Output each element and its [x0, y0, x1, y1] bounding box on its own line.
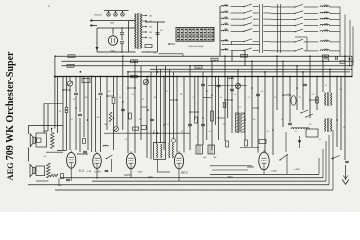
- socket: [108, 11, 110, 13]
- resistor zigzag: [109, 112, 112, 122]
- capacitor: [78, 113, 82, 115]
- electrolytic capacitor: [121, 27, 123, 29]
- ground arrow symbol: [345, 165, 347, 180]
- right small box: [340, 61, 345, 63]
- electrolytic block: [208, 145, 215, 154]
- capacitor: [74, 92, 78, 94]
- transformer core: [137, 13, 139, 49]
- tube EFM11: [259, 152, 269, 170]
- transformer primary winding: [135, 14, 137, 49]
- bus line 5: [128, 71, 350, 73]
- capacitor: [201, 123, 205, 125]
- capacitor: [201, 83, 205, 85]
- capacitor right low: [345, 160, 349, 162]
- wire bottom: [97, 51, 136, 53]
- switch row coil 306: [221, 40, 228, 41]
- socket: [122, 11, 124, 13]
- junction dots mid: [62, 89, 64, 91]
- wire jogs: [63, 89, 70, 91]
- trimmer capacitor mid: [236, 84, 241, 89]
- capacitor: [121, 108, 125, 110]
- IF transformer 2 windings: [169, 143, 170, 158]
- resistor box: [259, 140, 266, 144]
- fuse Si: [145, 45, 152, 48]
- resistor: [245, 140, 248, 146]
- wire: [28, 126, 30, 135]
- capacitor: [217, 84, 221, 86]
- resistor box 2: [141, 126, 146, 130]
- wire: [51, 129, 53, 133]
- wire mains line 1: [90, 20, 136, 22]
- switch row: [271, 41, 284, 43]
- wire: [285, 132, 287, 152]
- bottom wire 3: [92, 180, 326, 182]
- wire: [210, 165, 252, 167]
- resistor: [226, 141, 229, 147]
- capacitor: [150, 118, 154, 120]
- resistor: [61, 174, 64, 179]
- component cluster: [211, 58, 218, 61]
- wire: [157, 22, 159, 52]
- coil: [103, 145, 108, 146]
- socket: [115, 11, 117, 13]
- wire segment: [208, 85, 247, 87]
- wire: [112, 28, 114, 33]
- wire drop: [219, 52, 221, 56]
- IF trimmer: [143, 79, 148, 84]
- speaker 2: [33, 168, 35, 174]
- electrolytic capacitor: [156, 32, 160, 34]
- switch contact: [279, 159, 280, 160]
- rectifier tube EZ12: [108, 36, 117, 45]
- switch contact right: [331, 158, 332, 159]
- trimmer: [114, 127, 119, 132]
- arrow to table: [168, 43, 175, 45]
- resistor 20k: [67, 64, 74, 67]
- Netz arrow: [349, 58, 351, 67]
- wire from IF transformer: [156, 159, 158, 172]
- switch row: [271, 6, 284, 8]
- switch row: [271, 25, 284, 27]
- switch row: [271, 31, 284, 33]
- wire with 22 resistor: [159, 53, 184, 55]
- wire: [142, 51, 158, 53]
- main HT bus: [54, 76, 353, 78]
- right cluster resistor: [322, 59, 329, 62]
- IF transformer 4: [325, 119, 326, 132]
- switch row: [271, 19, 284, 21]
- resistor small: [223, 103, 226, 108]
- bottom wire 1: [210, 173, 319, 175]
- bus line 2: [61, 60, 352, 62]
- resistor bottom left: [50, 174, 58, 177]
- bottom wire 5: [55, 189, 333, 191]
- field coil 2: [47, 163, 51, 178]
- tube ECH11 second: [126, 153, 135, 169]
- trimmer: [172, 139, 176, 143]
- wire: [96, 28, 98, 52]
- wire riser: [286, 155, 288, 174]
- bus line 1: [55, 55, 352, 57]
- wire jog: [203, 97, 212, 99]
- resistor on HT bus: [131, 75, 138, 78]
- AVC wire: [104, 132, 190, 134]
- capacitor: [188, 123, 192, 125]
- ground arrow: [96, 47, 99, 51]
- wire: [212, 169, 248, 171]
- tube ECH11: [93, 154, 102, 169]
- resistor small: [65, 107, 68, 113]
- bus line 4: [150, 68, 352, 70]
- wire mains line 2: [90, 25, 97, 27]
- resistor: [112, 98, 115, 104]
- bottom wire 4: [28, 184, 329, 186]
- registration mark: [48, 5, 50, 7]
- wire: [28, 148, 30, 162]
- wire speaker top: [29, 125, 64, 127]
- coil detector: [291, 128, 309, 129]
- IF transformer 3: [325, 93, 326, 106]
- wire: [77, 153, 88, 155]
- capacitor: [230, 88, 234, 90]
- switch row coil 303: [221, 18, 228, 19]
- wire: [36, 180, 48, 182]
- coil small: [228, 78, 234, 79]
- wire: [46, 151, 63, 153]
- resistor: [195, 117, 198, 123]
- wire drop: [244, 51, 246, 66]
- switch row: [271, 50, 284, 52]
- tube bottom leads: [70, 168, 72, 181]
- wire: [44, 103, 63, 105]
- resistor 0.1M: [195, 66, 202, 69]
- IF transformer 1: [154, 142, 166, 159]
- capacitor: [66, 178, 70, 180]
- wire HT line: [97, 27, 136, 29]
- capacitor right: [335, 56, 337, 60]
- resistor tall: [211, 111, 214, 121]
- resistor: [316, 97, 319, 103]
- switch row: [271, 12, 284, 14]
- diode: [298, 140, 301, 143]
- field coil 1: [51, 133, 55, 149]
- potentiometer contact: [300, 112, 301, 113]
- wave switch bank left rail: [219, 6, 221, 52]
- capacitor: [303, 83, 307, 85]
- output transformer 1: [36, 133, 47, 147]
- mains terminal: [91, 25, 93, 27]
- resistor 50k: [131, 60, 138, 63]
- right rails: [339, 7, 341, 57]
- trimmer capacitor: [67, 81, 72, 86]
- resistor: [129, 113, 132, 119]
- wire socket top bus: [104, 10, 129, 12]
- wire: [44, 130, 48, 132]
- resistor box: [133, 127, 139, 130]
- wave switch bank right rail: [277, 4, 279, 53]
- capacitor: [288, 122, 292, 124]
- vertical wires: [43, 104, 45, 134]
- wire drop: [231, 51, 233, 62]
- mains terminal: [91, 20, 93, 22]
- switch shaft: [259, 4, 261, 53]
- capacitor: [83, 150, 87, 152]
- switch row coil 301: [221, 5, 228, 6]
- wire: [57, 150, 67, 152]
- resistor: [83, 138, 86, 144]
- electrolytic capacitor: [120, 41, 124, 43]
- wire: [145, 21, 165, 23]
- capacitor: [99, 92, 103, 94]
- electrolytic block: [196, 145, 203, 154]
- junction dots: [55, 55, 57, 57]
- bottom wire 2: [60, 177, 323, 179]
- resistor 1M: [68, 55, 75, 58]
- band filter box: [82, 79, 90, 83]
- capacitor: [105, 169, 109, 171]
- wire: [58, 178, 60, 186]
- switch row coil 305: [221, 30, 228, 31]
- switch row coil 304: [221, 24, 228, 25]
- bus line 3: [61, 65, 352, 67]
- capacitor: [256, 93, 260, 95]
- resistor network hatched: [235, 113, 239, 132]
- output transformer 2: [36, 166, 45, 176]
- tube EBF11: [174, 153, 183, 169]
- resistor 100: [241, 55, 248, 58]
- wire: [110, 159, 112, 172]
- tube socket table: [176, 28, 214, 42]
- switch row coil 302: [221, 12, 228, 13]
- link lower rows: [306, 37, 308, 51]
- wire segment: [240, 147, 259, 149]
- IF can box: [306, 129, 318, 137]
- switch row coil 307: [221, 49, 228, 50]
- link bank1 lower: [231, 42, 233, 45]
- magic eye EM11: [291, 96, 296, 106]
- tube EL12: [67, 152, 76, 168]
- wire: [128, 21, 130, 53]
- switch contact between tubes: [106, 158, 107, 159]
- voltage selector taps: [142, 15, 146, 17]
- speaker 1: [33, 137, 35, 143]
- transformer secondary winding: [140, 14, 142, 49]
- paper texture: [0, 0, 1, 1]
- right cluster resistor: [322, 55, 329, 58]
